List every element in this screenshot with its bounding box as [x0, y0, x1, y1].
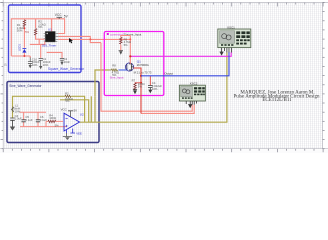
svg-text:ECE112L/B11: ECE112L/B11	[262, 98, 292, 103]
svg-text:U1: U1	[48, 28, 52, 32]
svg-text:U2: U2	[80, 113, 84, 117]
svg-text:5%: 5%	[55, 123, 60, 127]
svg-text:5%: 5%	[65, 99, 70, 103]
svg-text:B: B	[4, 63, 7, 67]
svg-text:Sine_Wave_Generator: Sine_Wave_Generator	[9, 84, 42, 88]
svg-text:100Ω: 100Ω	[49, 116, 56, 120]
svg-text:5%: 5%	[25, 30, 30, 34]
svg-text:M 2.Leu 70 73: M 2.Leu 70 73	[134, 70, 152, 74]
svg-text:10%: 10%	[15, 109, 21, 113]
svg-text:R8: R8	[112, 64, 116, 68]
svg-text:Sine_Input: Sine_Input	[110, 76, 124, 80]
svg-text:5%: 5%	[138, 85, 143, 89]
svg-text:VCC: VCC	[55, 13, 62, 17]
svg-text:5V: 5V	[74, 108, 78, 112]
svg-text:2N7000G: 2N7000G	[137, 63, 149, 67]
svg-text:0.1uF: 0.1uF	[40, 118, 47, 122]
svg-text:555_Timer: 555_Timer	[42, 43, 56, 47]
svg-text:Square_Wave_Generator: Square_Wave_Generator	[48, 67, 85, 71]
svg-text:VCC: VCC	[61, 107, 67, 111]
svg-text:0.1uF: 0.1uF	[25, 118, 32, 122]
svg-text:Output: Output	[164, 72, 173, 76]
svg-text:10%: 10%	[32, 63, 38, 67]
svg-text:R7: R7	[132, 79, 136, 83]
svg-text:50%: 50%	[17, 29, 23, 33]
svg-text:5%: 5%	[38, 25, 43, 29]
svg-text:VEE: VEE	[76, 132, 82, 136]
svg-text:10nF: 10nF	[64, 60, 71, 64]
svg-text:10%: 10%	[43, 63, 49, 67]
svg-text:LED1: LED1	[17, 44, 21, 51]
svg-text:1.0uF: 1.0uF	[15, 117, 22, 121]
svg-text:5%: 5%	[124, 43, 129, 47]
svg-text:5V: 5V	[64, 15, 69, 19]
svg-text:10%: 10%	[152, 87, 158, 91]
svg-text:R2: R2	[65, 92, 69, 96]
